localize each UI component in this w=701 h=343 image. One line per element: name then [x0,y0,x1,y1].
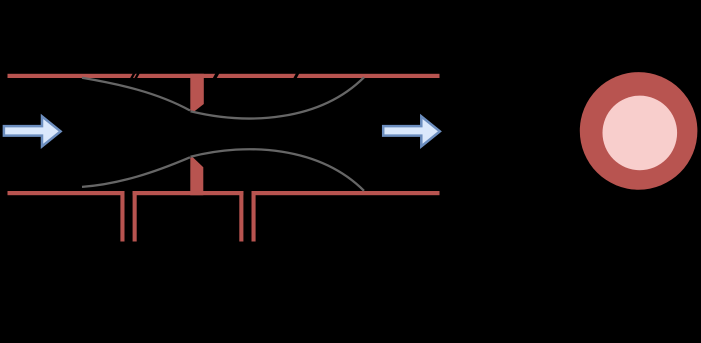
wall break slash 1a [130,71,135,81]
downstream pressure tap outer wall [252,191,256,242]
wall break slash 3 [294,71,299,81]
bottom orifice plate [190,157,203,195]
inlet flow arrow [4,116,61,146]
bottom pipe wall middle segment [133,191,244,195]
bottom upstream streamline [82,157,190,187]
upstream pressure tap outer wall [120,191,124,242]
bottom pipe wall left segment [8,191,125,195]
top orifice plate [190,74,204,112]
top upstream streamline [82,78,190,111]
bottom pipe wall right segment [252,191,440,195]
outlet flow arrow [383,116,440,146]
downstream pressure tap inner wall [239,191,243,242]
bottom downstream streamline [191,149,365,191]
wall break slash 1b [134,71,139,81]
top pipe wall [8,74,440,78]
wall break slash 2 [213,71,219,81]
upstream pressure tap inner wall [133,191,137,242]
pipe cross-section outer ring [580,72,698,190]
pipe cross-section bore [603,96,678,171]
top downstream streamline [191,77,365,118]
